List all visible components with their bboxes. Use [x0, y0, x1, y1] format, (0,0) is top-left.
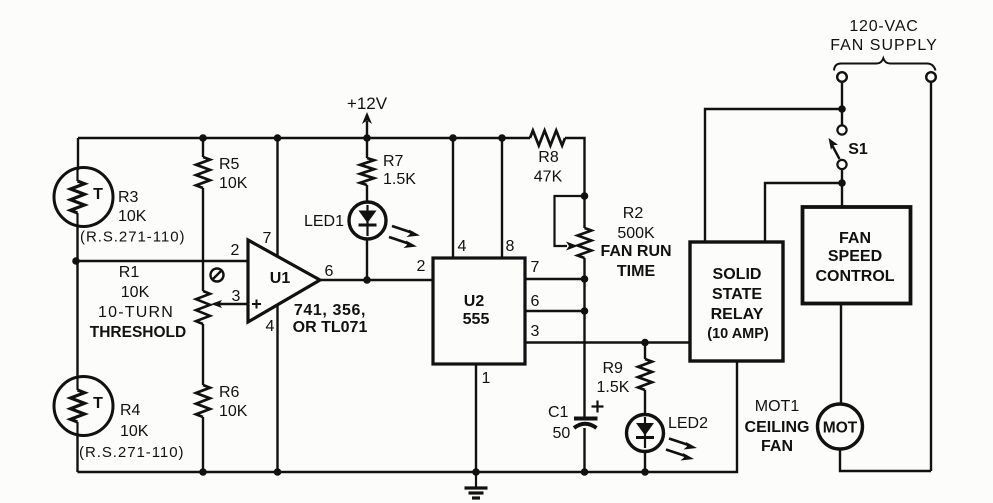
svg-text:(R.S.271-110): (R.S.271-110)	[79, 444, 184, 461]
timer U2	[433, 258, 525, 364]
svg-text:7: 7	[531, 259, 540, 276]
svg-text:MOT1: MOT1	[755, 398, 800, 415]
svg-text:FAN RUN: FAN RUN	[600, 243, 671, 260]
svg-text:FAN: FAN	[839, 230, 871, 247]
+12V supply arrow	[362, 112, 372, 124]
svg-text:+12V: +12V	[347, 94, 388, 113]
wire SSR top-left to S1 upper node	[705, 109, 842, 242]
svg-text:SPEED: SPEED	[828, 248, 882, 265]
junction top rail / R5	[199, 134, 207, 142]
LED LED1	[349, 202, 420, 248]
resistor R7	[360, 158, 374, 185]
svg-text:CONTROL: CONTROL	[815, 268, 894, 285]
wire R2 pot to pin7 node	[583, 258, 585, 279]
svg-text:R6: R6	[219, 384, 240, 401]
wire LED2 to bottom rail	[644, 451, 646, 472]
svg-text:2: 2	[231, 242, 240, 259]
fan speed control box	[803, 207, 911, 304]
resistor R5	[196, 157, 210, 188]
junction bottom rail / LED2	[641, 468, 649, 476]
motor MOT1	[818, 404, 863, 449]
wire R9 top from pin3 net	[644, 343, 646, 360]
wire op-amp pin 4 to bottom rail	[276, 304, 278, 472]
wire pin6 node to C1	[583, 311, 585, 418]
junction R2 tap	[581, 192, 589, 200]
svg-text:R8: R8	[538, 149, 559, 166]
wire right supply terminal down	[930, 82, 932, 471]
junction U2 pin3 / R9	[641, 339, 649, 347]
svg-text:SOLID: SOLID	[713, 266, 762, 283]
resistor R8	[530, 131, 565, 146]
wire U2 pin 1 to ground rail	[475, 364, 477, 472]
thermistor R4	[54, 377, 113, 436]
junction S1 upper / SSR	[838, 105, 846, 113]
svg-text:10K: 10K	[120, 423, 149, 440]
resistor R6	[196, 385, 210, 417]
capacitor C1	[574, 401, 604, 429]
svg-text:7: 7	[263, 230, 272, 247]
svg-text:R1: R1	[119, 264, 140, 281]
junction S1 lower / SSR	[838, 179, 846, 187]
svg-text:4: 4	[266, 318, 275, 335]
junction top rail / +12V R7	[363, 134, 371, 142]
terminal 120VAC right	[926, 72, 936, 82]
svg-text:47K: 47K	[534, 169, 563, 186]
junction R2 / U2 pin7	[581, 275, 589, 283]
wire R2 tap to pot	[583, 196, 585, 228]
wire MOT1 to bottom right corner	[840, 449, 931, 471]
svg-text:U1: U1	[270, 270, 291, 287]
wire left supply terminal to S1	[841, 82, 843, 125]
solid state relay box	[690, 242, 783, 361]
resistor R9	[638, 359, 652, 390]
junction node A (thermistors/R1)	[72, 257, 80, 265]
wire R7 top	[366, 138, 368, 158]
wire mid vertical R5-R1 pot	[202, 188, 204, 291]
wire op-amp pin 7 to top rail	[276, 138, 278, 257]
switch S1	[829, 125, 847, 169]
wire LED1 to output node	[366, 239, 368, 280]
svg-text:S1: S1	[848, 141, 868, 158]
junction bottom rail / C1	[581, 468, 589, 476]
thermistor R3	[54, 168, 113, 227]
wire mid vertical rail-R5	[202, 138, 204, 157]
svg-text:TIME: TIME	[617, 263, 656, 280]
wire pin7 node to pin6 node	[583, 279, 585, 311]
wire U2 pin 8 to top rail	[501, 138, 503, 258]
wire mid vertical R1 pot-R6	[202, 324, 204, 385]
junction top rail / U2 pin4	[449, 134, 457, 142]
svg-text:1.5K: 1.5K	[383, 171, 416, 188]
wire R9 to LED2	[644, 390, 646, 415]
svg-text:8: 8	[506, 238, 515, 255]
junction op-amp output / LED1	[363, 276, 371, 284]
svg-text:1: 1	[482, 370, 491, 387]
svg-text:R3: R3	[118, 189, 139, 206]
wire top rail R8 to corner and down to R2 tap	[565, 138, 585, 193]
wire op-amp output to U2 pin 2	[320, 279, 433, 281]
wire node A to op-amp pin 2	[76, 260, 248, 262]
junction top rail / op-amp pin7	[274, 134, 282, 142]
wire mid vertical R6-bottom rail	[202, 417, 204, 472]
svg-text:500K: 500K	[617, 225, 655, 242]
junction bottom rail / op-amp pin4	[274, 468, 282, 476]
svg-text:10K: 10K	[121, 284, 150, 301]
svg-text:(R.S.271-110): (R.S.271-110)	[80, 229, 185, 246]
wire R7 to LED1	[366, 185, 368, 202]
svg-text:U2: U2	[464, 293, 485, 310]
wire left vertical R4 to bottom rail	[76, 433, 78, 472]
terminal 120VAC left	[837, 72, 847, 82]
wire U2 pin 3 output	[525, 341, 690, 343]
potentiometer R2	[555, 196, 592, 258]
svg-text:OR TL071: OR TL071	[293, 319, 368, 336]
wire C1 to bottom rail	[583, 428, 585, 472]
wire op-amp pin 3 from R1 wiper	[214, 303, 248, 305]
wire top rail left of R8	[78, 137, 530, 139]
svg-text:120-VAC: 120-VAC	[849, 18, 918, 35]
wire S1 lower contact to FSC box	[841, 169, 843, 207]
svg-text:10K: 10K	[219, 403, 248, 420]
svg-text:741, 356,: 741, 356,	[294, 302, 366, 319]
LED LED2	[627, 415, 698, 461]
svg-text:T: T	[93, 186, 103, 203]
wire left vertical R3 to node	[76, 224, 78, 261]
svg-text:R5: R5	[219, 156, 240, 173]
brace fan supply	[834, 58, 936, 70]
wire SSR top-right to S1 lower node	[765, 183, 842, 242]
junction bottom rail / R6	[199, 468, 207, 476]
svg-text:CEILING: CEILING	[745, 419, 810, 436]
wire U2 pin 6 to C1 node	[525, 310, 585, 312]
wire bottom ground rail	[78, 361, 738, 472]
svg-text:LED2: LED2	[668, 415, 708, 432]
svg-text:R9: R9	[603, 360, 624, 377]
wire U2 pin 4 to top rail	[452, 138, 454, 258]
svg-text:4: 4	[458, 238, 467, 255]
svg-text:6: 6	[531, 293, 540, 310]
junction bottom rail / ground	[472, 468, 480, 476]
svg-text:FAN SUPPLY: FAN SUPPLY	[830, 37, 938, 54]
svg-text:C1: C1	[548, 404, 569, 421]
wire +12V stub	[366, 121, 368, 138]
svg-text:1.5K: 1.5K	[597, 379, 630, 396]
svg-text:10K: 10K	[219, 175, 248, 192]
wire U2 pin 7 to R2	[525, 278, 585, 280]
wire left vertical node to R4	[76, 261, 78, 379]
junction top rail / U2 pin8	[498, 134, 506, 142]
potentiometer R1	[196, 269, 224, 325]
svg-text:555: 555	[463, 311, 490, 328]
op-amp U1	[248, 240, 320, 322]
svg-text:3: 3	[531, 323, 540, 340]
svg-text:(10 AMP): (10 AMP)	[707, 326, 769, 342]
svg-text:50: 50	[553, 425, 571, 442]
svg-text:R4: R4	[120, 402, 141, 419]
svg-text:3: 3	[232, 288, 241, 305]
svg-text:R7: R7	[383, 153, 404, 170]
svg-text:FAN: FAN	[761, 438, 793, 455]
svg-text:LED1: LED1	[304, 213, 344, 230]
svg-text:10K: 10K	[118, 208, 147, 225]
svg-text:RELAY: RELAY	[711, 306, 764, 323]
svg-text:2: 2	[417, 258, 426, 275]
wire left vertical top (rail to R3)	[77, 138, 79, 170]
svg-text:T: T	[93, 395, 103, 412]
svg-text:R2: R2	[623, 205, 644, 222]
wire FSC box to MOT1	[840, 304, 842, 404]
svg-text:10-TURN: 10-TURN	[98, 304, 174, 321]
junction C1 / U2 pin6	[581, 307, 589, 315]
svg-text:THRESHOLD: THRESHOLD	[90, 324, 186, 341]
svg-text:MOT: MOT	[823, 420, 858, 437]
svg-text:6: 6	[325, 263, 334, 280]
ground	[465, 472, 488, 498]
svg-text:STATE: STATE	[712, 286, 762, 303]
